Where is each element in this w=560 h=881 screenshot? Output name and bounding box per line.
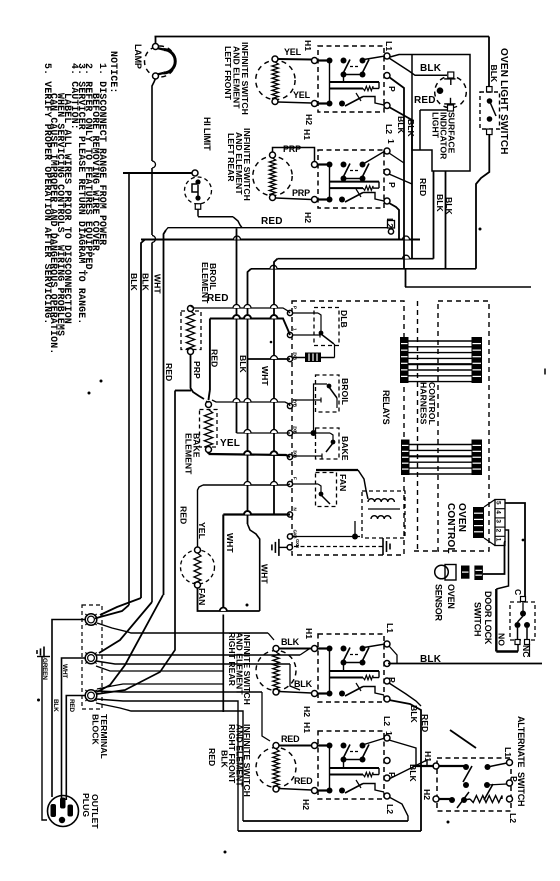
svg-text:WHT: WHT [61, 664, 68, 678]
svg-text:BLK: BLK [396, 116, 406, 135]
svg-text:H2: H2 [304, 114, 314, 125]
svg-text:BLK: BLK [238, 355, 248, 374]
svg-text:BLK: BLK [420, 654, 442, 665]
svg-text:P: P [387, 677, 397, 683]
svg-text:ALTERNATE: ALTERNATE [516, 716, 526, 768]
svg-text:RED: RED [164, 363, 174, 381]
svg-text:H2: H2 [422, 789, 432, 800]
svg-text:HARNESS: HARNESS [419, 382, 429, 425]
svg-text:PRP: PRP [292, 188, 310, 198]
svg-text:H2: H2 [303, 212, 313, 223]
svg-text:BLK: BLK [409, 705, 419, 724]
svg-text:H1: H1 [302, 129, 312, 140]
svg-text:BLK: BLK [489, 65, 499, 84]
svg-text:PLUG: PLUG [81, 793, 91, 817]
svg-text:ELEMENT: ELEMENT [200, 262, 210, 304]
svg-text:YEL: YEL [220, 438, 240, 449]
svg-text:FAN: FAN [338, 474, 348, 491]
svg-text:L2: L2 [382, 716, 392, 726]
svg-text:PRP: PRP [192, 361, 202, 379]
svg-text:BLK: BLK [406, 119, 416, 138]
svg-text:GXB: GXB [295, 539, 300, 549]
svg-text:FAN: FAN [197, 588, 207, 605]
svg-text:DOOR LOCK: DOOR LOCK [483, 591, 493, 645]
svg-text:HI LIMIT: HI LIMIT [202, 117, 212, 151]
svg-text:P: P [387, 182, 397, 188]
svg-text:H2: H2 [302, 706, 312, 717]
svg-text:BLK: BLK [294, 679, 313, 689]
svg-text:BLK: BLK [220, 750, 230, 769]
svg-text:1: 1 [386, 139, 396, 144]
svg-text:P: P [293, 306, 298, 309]
svg-text:C: C [513, 589, 523, 595]
svg-text:GXB: GXB [293, 530, 298, 540]
svg-text:N: N [293, 508, 298, 511]
svg-text:ELEMENT: ELEMENT [184, 433, 194, 475]
svg-text:WHT: WHT [260, 564, 270, 584]
svg-text:H1: H1 [423, 751, 433, 762]
svg-text:YEL: YEL [293, 90, 311, 100]
svg-text:SWITCH: SWITCH [473, 602, 483, 636]
svg-text:RED: RED [414, 95, 436, 106]
svg-text:RED: RED [281, 734, 300, 744]
svg-text:LIGHT: LIGHT [431, 112, 441, 139]
svg-text:L2: L2 [384, 124, 394, 134]
svg-text:WHT: WHT [153, 274, 163, 294]
svg-text:BLK: BLK [52, 699, 59, 712]
svg-text:LAMP: LAMP [133, 44, 143, 69]
svg-text:BROIL: BROIL [340, 378, 350, 405]
svg-text:BLK: BLK [281, 637, 300, 647]
svg-text:L2: L2 [385, 218, 395, 228]
svg-text:RED: RED [294, 776, 313, 786]
svg-text:H1: H1 [302, 722, 312, 733]
svg-text:P: P [387, 86, 397, 92]
svg-text:L2: L2 [508, 813, 518, 823]
svg-text:GREEN: GREEN [41, 658, 48, 680]
svg-text:BLK: BLK [129, 273, 139, 292]
svg-text:3XB: 3XB [293, 450, 298, 459]
svg-text:WHT: WHT [225, 533, 235, 553]
svg-text:H1: H1 [304, 628, 314, 639]
svg-text:P: P [509, 776, 519, 782]
svg-text:BLK: BLK [435, 194, 445, 213]
svg-text:NO: NO [497, 633, 507, 646]
svg-text:OVEN: OVEN [456, 503, 467, 532]
svg-text:CONTROL: CONTROL [445, 503, 456, 554]
svg-text:WHT: WHT [260, 366, 270, 386]
svg-text:L1: L1 [503, 747, 513, 757]
svg-text:RED: RED [210, 349, 220, 367]
svg-text:DLB: DLB [339, 310, 349, 328]
svg-text:RIGHT REAR: RIGHT REAR [227, 632, 237, 687]
svg-text:BLK: BLK [420, 63, 442, 74]
svg-text:LEFT REAR: LEFT REAR [226, 133, 236, 182]
svg-text:RELAYS: RELAYS [381, 390, 391, 425]
svg-text:PRP: PRP [283, 144, 301, 154]
svg-text:5. VERIFY PROPER OPERATION AFT: 5. VERIFY PROPER OPERATION AFTER SERVICI… [42, 63, 53, 324]
svg-text:RED: RED [418, 178, 428, 196]
svg-text:RED: RED [207, 748, 217, 766]
svg-text:RED: RED [420, 714, 430, 732]
svg-text:L1: L1 [385, 623, 395, 633]
svg-text:BLK: BLK [444, 197, 454, 216]
svg-text:RED: RED [68, 699, 75, 712]
svg-text:YEL: YEL [284, 47, 302, 57]
svg-text:2XB: 2XB [293, 352, 298, 361]
svg-text:LEFT FRONT: LEFT FRONT [223, 46, 233, 101]
svg-text:BLOCK: BLOCK [91, 714, 101, 746]
svg-text:BAKE: BAKE [340, 436, 350, 461]
svg-text:L2: L2 [385, 804, 395, 814]
svg-text:RED: RED [179, 506, 189, 524]
svg-text:BLK: BLK [141, 273, 151, 292]
svg-text:H1: H1 [303, 40, 313, 51]
svg-text:L1: L1 [384, 41, 394, 51]
svg-text:SENSOR: SENSOR [434, 584, 444, 622]
svg-text:H2: H2 [301, 799, 311, 810]
svg-text:RED: RED [261, 216, 283, 227]
svg-text:1: 1 [384, 731, 394, 736]
svg-text:YEL: YEL [197, 522, 207, 539]
svg-text:NOTICE:: NOTICE: [108, 51, 119, 94]
svg-text:OVEN: OVEN [446, 584, 456, 609]
